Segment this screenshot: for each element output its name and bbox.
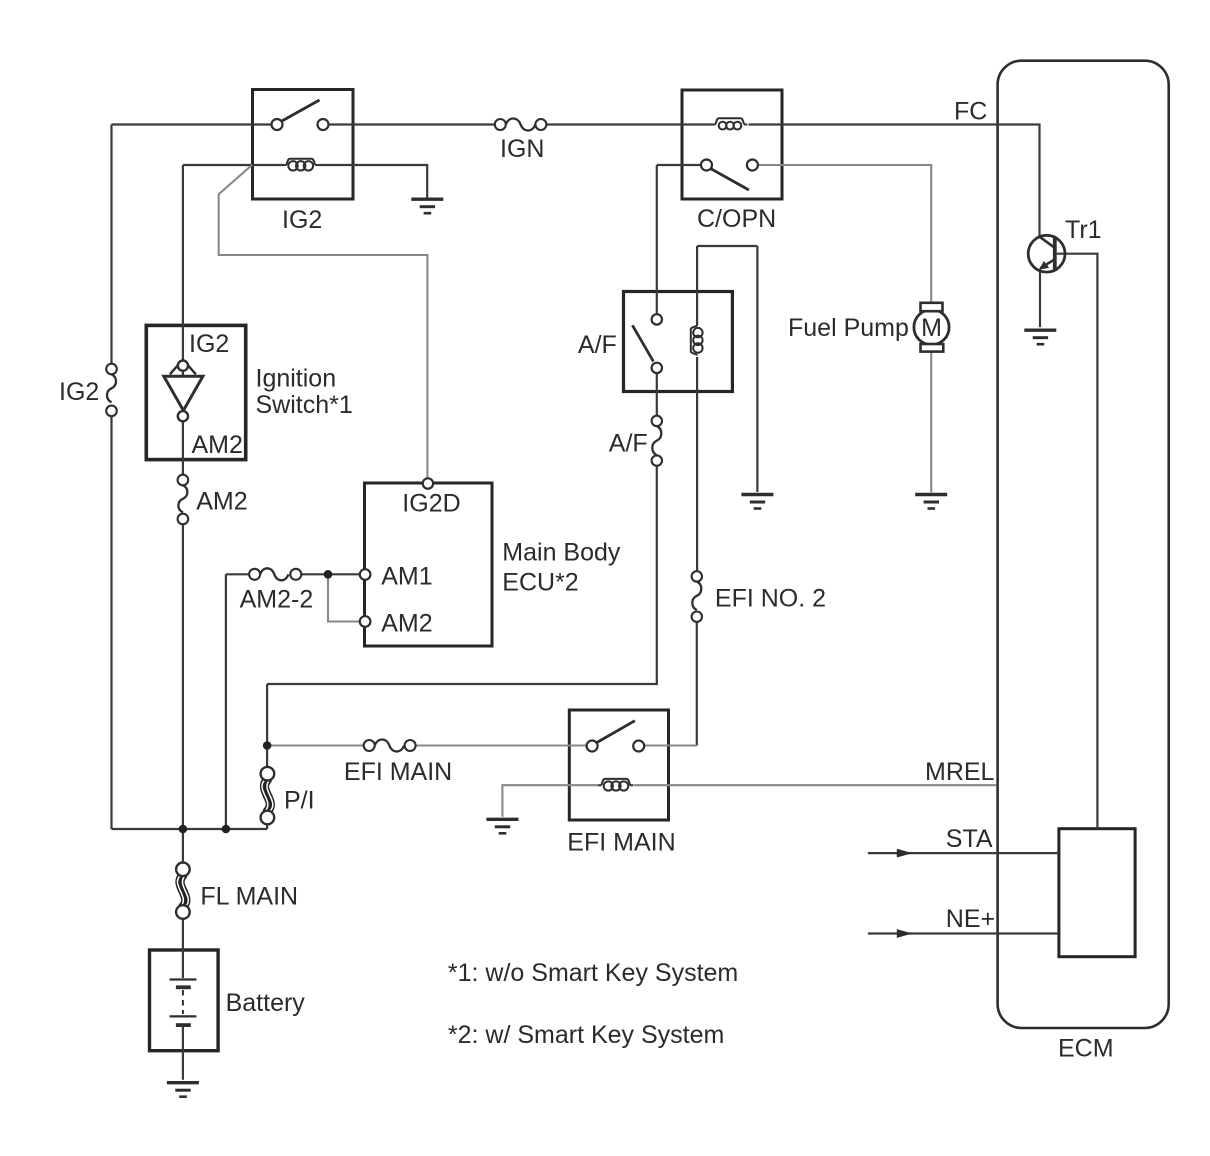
switch contacts relay C/OPN [701,160,758,171]
label IG2 (ignition switch pin) [189,330,229,358]
wire: EFI MAIN coil to ECM MREL (gray) [634,784,996,786]
fuse IG2 (left column) [106,364,117,417]
svg-text:Battery: Battery [226,989,306,1017]
wire: fuel pump to ground (gray) [930,352,932,493]
pin AM1 (Main Body ECU) [360,569,371,580]
fuse AM2-2 [249,568,301,580]
wire: IGN fuse to C/OPN coil [546,123,712,125]
wire: Tr1 emitter to ground [1039,269,1041,328]
svg-text:Switch*1: Switch*1 [256,391,353,419]
label IGN [500,135,544,163]
relay C/OPN box [682,90,782,199]
label Main Body [502,539,621,567]
wire: A/F fuse down and across to P/I column [267,466,657,684]
fuse A/F [652,416,662,466]
ignition switch box [146,325,245,459]
wire: STA input line [868,852,1059,854]
note *1 [448,959,738,987]
wire: IG2 coil to Main Body ECU IG2D (gray path) [219,165,428,479]
pin IG2D (Main Body ECU) [423,478,433,488]
switch blade relay IG2 [281,100,320,122]
wire: NE+ input line [868,932,1059,934]
pin AM2 (Main Body ECU) [360,616,371,627]
wire: ignition switch to AM2 fuse to bottom rail [182,524,184,829]
svg-text:ECU*2: ECU*2 [502,569,578,597]
svg-text:EFI NO. 2: EFI NO. 2 [715,585,826,613]
svg-text:FL MAIN: FL MAIN [200,883,298,911]
switch contacts relay A/F [652,314,662,373]
svg-text:AM2: AM2 [196,488,247,516]
fuse EFI NO.2 [692,571,702,622]
svg-text:EFI MAIN: EFI MAIN [344,758,452,786]
wire: C/OPN switch to A/F relay switch [656,165,658,314]
label Tr1 [1065,216,1102,244]
label A/F (fuse) [609,430,648,458]
label IG2D [402,490,460,518]
switch contacts relay IG2 [272,119,329,130]
label AM2 (ignition switch pin) [192,431,243,459]
ground (fuel pump) [915,495,947,509]
battery cell plates [170,980,197,1026]
fuse EFI MAIN [364,740,416,752]
wire: C/OPN switch left lead [657,164,701,166]
coil relay A/F (vertical) [691,325,703,356]
wire: A/F coil top cross to ground drop [697,245,757,247]
label AM2-2 [240,586,314,614]
svg-text:AM2: AM2 [192,431,243,459]
label ECM [1058,1035,1114,1063]
label AM2 (pin) [381,610,432,638]
svg-text:P/I: P/I [284,787,315,815]
wire: AM2-2 fuse to junction to AM1 pin [301,573,360,575]
svg-text:IG2D: IG2D [402,490,460,518]
wire: EFI MAIN coil left lead to ground (gray) [502,785,598,817]
label Fuel Pump [788,314,909,342]
arrow STA input [897,849,913,858]
wire: P/I column upper [266,684,268,767]
coil relay C/OPN [712,118,747,129]
label Switch*1 [256,391,353,419]
wire: left drop from top feed through IG2 fuse column [110,125,112,364]
label C/OPN [697,205,776,233]
label IG2 (relay) [282,206,322,234]
battery box [150,950,219,1051]
wire: A/F coil bottom through EFI NO.2 fuse column [696,357,698,571]
wire: AM2-2 fuse left lead [226,573,249,575]
switch blade relay A/F [632,325,653,361]
fuse IGN [495,119,547,131]
wire: IG2 relay coil right lead to ground [318,165,427,198]
wire: IG2 relay output to IGN fuse [329,123,495,125]
coil relay IG2 [283,159,318,171]
wire: C/OPN switch output to fuel pump (gray) [758,165,931,303]
wire: Tr1 base to ECM inner terminal box [1057,254,1098,829]
label P/I [284,787,315,815]
svg-text:Fuel Pump: Fuel Pump [788,314,909,342]
relay EFI MAIN box [569,710,668,820]
label Battery [226,989,306,1017]
fuse AM2 [178,475,189,525]
svg-text:FC: FC [954,98,987,126]
wire: EFI MAIN fuse to relay switch (gray) [416,744,587,746]
junction node battery feed / EFI MAIN fuse [263,741,272,750]
wire: AM2-2 column [225,574,227,829]
wire: battery internal bottom to ground [182,1027,184,1080]
fusible link P/I [261,767,275,824]
svg-text:IGN: IGN [500,135,544,163]
ground (EFI MAIN coil) [486,819,518,833]
junction node AM2-2/AM1 [324,570,333,579]
label EFI NO. 2 [715,585,826,613]
label FC [954,98,987,126]
svg-text:*1: w/o Smart Key System: *1: w/o Smart Key System [448,959,738,987]
svg-text:Ignition: Ignition [256,365,337,393]
relay IG2 box [253,90,354,200]
ECM inner terminal box [1059,829,1135,957]
switch blade relay EFI MAIN [596,721,635,743]
label M (motor) [921,314,942,342]
svg-text:MREL: MREL [925,758,995,786]
label ECU*2 [502,569,578,597]
svg-text:NE+: NE+ [946,905,995,933]
wire: A/F coil ground drop [756,246,758,492]
ground (battery) [167,1083,199,1097]
svg-text:C/OPN: C/OPN [697,205,776,233]
junction node bottom rail / AM2-2 column [222,825,231,834]
ground (IG2 relay coil) [411,199,443,213]
svg-text:A/F: A/F [578,331,617,359]
svg-text:ECM: ECM [1058,1035,1114,1063]
svg-text:AM2: AM2 [381,610,432,638]
label EFI MAIN (fuse) [344,758,452,786]
label IG2 (fuse) [59,378,99,406]
wire: P/I fuse to bottom rail corner [266,824,268,829]
relay A/F box [624,292,733,392]
wire: ignition switch column from coil lead down through box [182,165,184,475]
wire: battery column through FL MAIN [182,829,184,863]
wire: AM2-2 junction jog to AM2 pin (gray) [328,574,360,621]
arrow NE+ input [897,929,913,938]
note *2 [448,1021,724,1049]
label EFI MAIN (relay) [567,829,675,857]
wire: C/OPN coil to FC, down to Tr1 collector [749,125,1040,237]
svg-text:IG2: IG2 [282,206,322,234]
switch contacts relay EFI MAIN [587,741,645,752]
wire: IG2 relay coil left lead [183,164,283,166]
ground (A/F coil) [741,495,773,509]
label Ignition [256,365,337,393]
label AM1 [381,563,432,591]
label STA [946,825,993,853]
svg-text:IG2: IG2 [189,330,229,358]
svg-text:Main Body: Main Body [502,539,621,567]
wire: A/F switch to A/F fuse [656,373,658,416]
svg-text:EFI MAIN: EFI MAIN [567,829,675,857]
label MREL [925,758,995,786]
svg-text:M: M [921,314,942,342]
wire: EFI MAIN relay switch to EFI NO.2 column (gray) [644,744,697,746]
wire: top feed left segment to IG2 relay contact [112,123,272,125]
motor M fuel pump [914,303,949,352]
wire: bottom rail [112,828,268,830]
ignition switch key symbol [164,360,203,422]
svg-text:AM1: AM1 [381,563,432,591]
svg-text:A/F: A/F [609,430,648,458]
transistor Tr1 [1028,235,1065,272]
wire: battery feed to EFI MAIN fuse (gray) [267,744,364,746]
wire: battery internal top [182,950,184,978]
ground (Tr1 emitter) [1024,330,1056,344]
label FL MAIN [200,883,298,911]
fusible link FL MAIN [176,863,190,919]
label A/F (relay) [578,331,617,359]
svg-text:IG2: IG2 [59,378,99,406]
svg-text:*2: w/ Smart Key System: *2: w/ Smart Key System [448,1021,724,1049]
switch blade relay C/OPN [711,169,749,191]
main body ECU box [365,483,493,646]
svg-text:AM2-2: AM2-2 [240,586,314,614]
label NE+ [946,905,995,933]
svg-text:Tr1: Tr1 [1065,216,1102,244]
wire: A/F coil top lead [696,246,698,325]
label AM2 (fuse) [196,488,247,516]
ECM box [998,61,1169,1028]
junction node bottom rail / battery column [179,825,188,834]
coil relay EFI MAIN [598,779,633,791]
svg-text:STA: STA [946,825,993,853]
